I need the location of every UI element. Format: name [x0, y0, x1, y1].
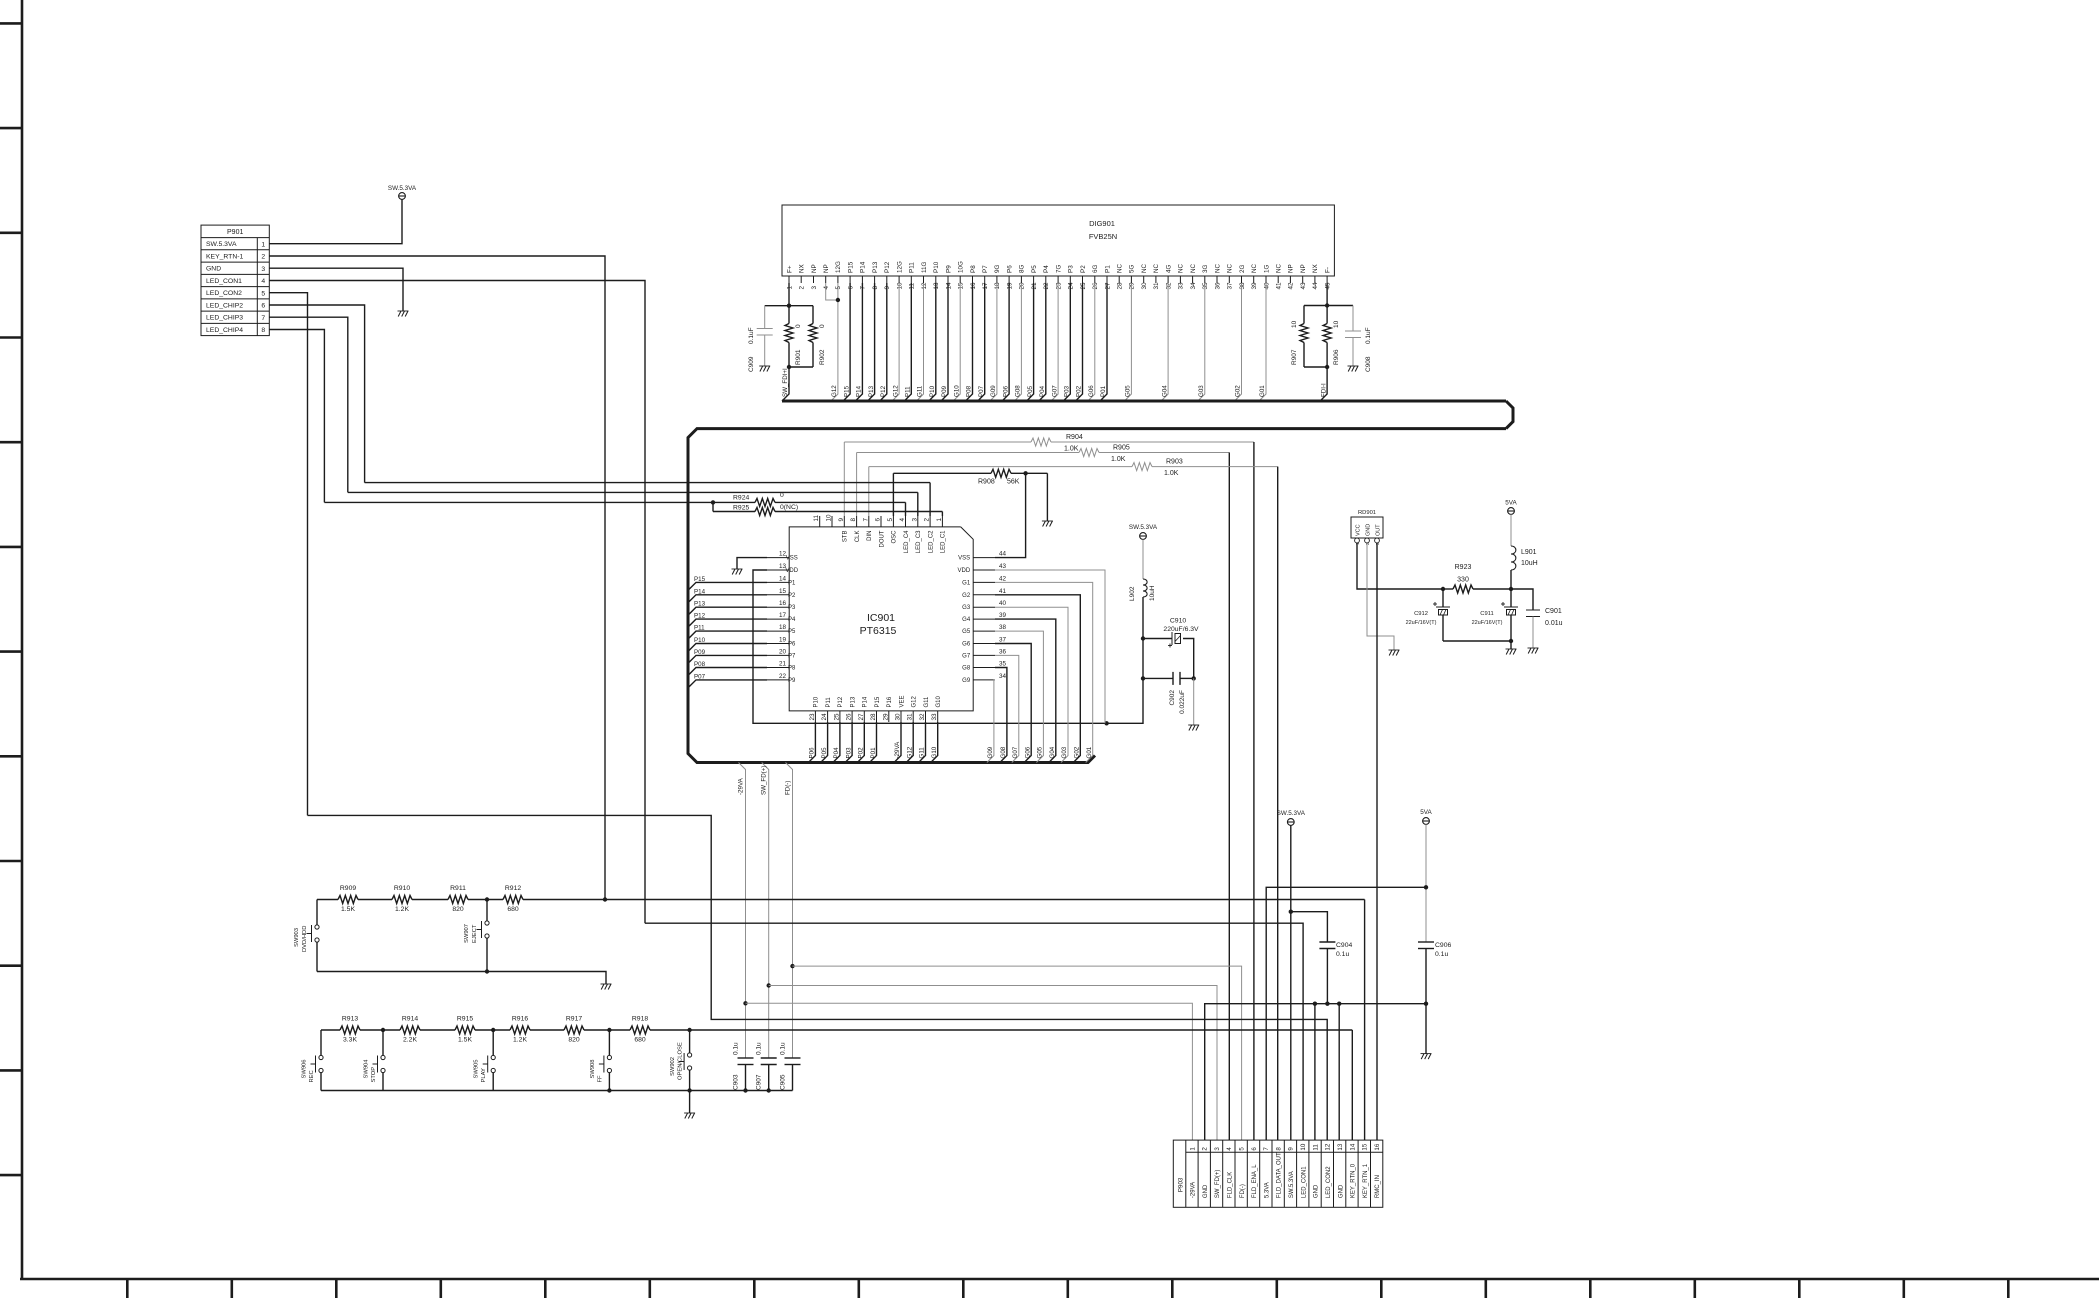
svg-text:12G: 12G [896, 261, 903, 273]
capacitor C907 0.1u [756, 1042, 777, 1091]
svg-text:4: 4 [261, 278, 265, 285]
svg-text:4: 4 [1226, 1147, 1233, 1151]
svg-text:GND: GND [1314, 1184, 1320, 1198]
svg-text:13: 13 [933, 282, 940, 290]
wire SW907 top [486, 900, 488, 921]
wire LED_CON1 from P901 pin4 [269, 281, 645, 924]
svg-text:39: 39 [1251, 282, 1258, 290]
wire DIG901 pin11 net P11 to bus [904, 283, 911, 401]
svg-text:SW908: SW908 [590, 1059, 596, 1078]
svg-text:P4: P4 [1043, 265, 1050, 273]
svg-text:29: 29 [882, 713, 889, 721]
svg-text:G01: G01 [1086, 746, 1093, 758]
svg-text:P11: P11 [694, 625, 705, 632]
svg-text:EJECT: EJECT [472, 924, 478, 943]
svg-text:NC: NC [1141, 263, 1148, 273]
svg-text:SW_FDI+I: SW_FDI+I [782, 368, 789, 397]
node FDI-I (bus entry label) [1320, 383, 1327, 397]
node P07 (bus entry label) [978, 385, 985, 397]
svg-text:P08: P08 [966, 385, 973, 397]
svg-text:G12: G12 [906, 746, 913, 758]
wire SW903 top [316, 900, 318, 925]
wire LED_C1 drop [941, 512, 943, 517]
node G03 (bus entry label) [1061, 746, 1068, 758]
wire IC901 P9 to bus (P07) [689, 680, 767, 687]
svg-text:27: 27 [1104, 282, 1111, 290]
wire IC901 G1 to bus (G01) [995, 582, 1093, 762]
wire IC901 bottom pin30 to bus (-29VA) [894, 722, 901, 763]
svg-text:28: 28 [1117, 282, 1124, 290]
junction row2 [607, 1028, 611, 1032]
svg-text:G07: G07 [1051, 385, 1058, 397]
svg-text:FLD_ENA_L: FLD_ENA_L [1252, 1164, 1258, 1198]
svg-text:14: 14 [945, 282, 952, 290]
svg-text:SW.5.3VA: SW.5.3VA [1277, 810, 1306, 817]
svg-text:2G: 2G [1239, 264, 1246, 273]
svg-text:8: 8 [872, 286, 879, 290]
resistor R910 1.2K [394, 885, 410, 913]
svg-text:820: 820 [452, 906, 464, 913]
svg-text:25: 25 [1080, 282, 1087, 290]
svg-text:R911: R911 [450, 885, 466, 892]
junction GND C904 [1325, 1002, 1329, 1006]
wire VDD pin43 down [995, 570, 1105, 723]
svg-text:P13: P13 [850, 696, 856, 707]
capacitor C912 22uF/16V(T) [1406, 589, 1450, 641]
svg-text:NC: NC [1153, 263, 1160, 273]
svg-text:220uF/6.3V: 220uF/6.3V [1163, 626, 1199, 633]
svg-text:CLK: CLK [855, 531, 861, 543]
ground (IC901 VSS left) [732, 569, 743, 575]
svg-text:8: 8 [1275, 1147, 1282, 1151]
wire F+ top rail [765, 305, 813, 307]
svg-text:GND: GND [1365, 524, 1371, 536]
wire FLD_ENA_L to P903 [1253, 442, 1255, 1140]
wire DIG901 pin9 net P12 to bus [880, 283, 887, 401]
ground (R908) [1042, 521, 1053, 527]
resistor R914 2.2K [402, 1016, 418, 1044]
svg-text:OSC: OSC [892, 530, 898, 544]
junction C902 left [1141, 676, 1145, 680]
svg-text:G10: G10 [936, 695, 942, 707]
wire DIG901 pin14 net P09 to bus [941, 283, 948, 401]
wire F- top rail [1304, 305, 1353, 307]
resistor R918 680 [632, 1016, 648, 1044]
svg-text:G06: G06 [1024, 746, 1031, 758]
svg-text:P08: P08 [694, 661, 706, 668]
svg-text:LED_C4: LED_C4 [904, 530, 910, 553]
node G10 (IC bottom bus label) [931, 746, 938, 758]
wire R908 to ground [1046, 473, 1048, 521]
wire DIG901 pin22 net P04 to bus [1039, 283, 1046, 401]
svg-text:680: 680 [634, 1037, 646, 1044]
svg-text:G09: G09 [990, 385, 997, 397]
wire LED_CON2 from P901 pin5 [269, 293, 307, 816]
svg-text:P15: P15 [843, 385, 850, 397]
svg-text:G06: G06 [1088, 385, 1095, 397]
svg-text:P3: P3 [1068, 265, 1075, 273]
ground (below SW.5.3VA wire) [398, 311, 409, 317]
wire LED_CHIP3 from P901 pin7 [269, 317, 348, 492]
svg-text:34: 34 [999, 673, 1007, 680]
svg-text:VSS: VSS [786, 556, 798, 562]
svg-text:6G: 6G [1092, 264, 1099, 273]
node G12 (bus entry label) [892, 385, 899, 397]
switch SW902 OPEN/CLOSE [670, 1042, 692, 1080]
wire IC901 P2 to bus (P14) [689, 595, 767, 602]
svg-text:2: 2 [924, 518, 931, 522]
svg-text:3: 3 [811, 286, 818, 290]
wire SW902 top [689, 1030, 691, 1053]
svg-text:R914: R914 [402, 1016, 418, 1023]
wire DIG901 pin18 net G09 to bus [990, 283, 997, 401]
node P08 (IC left bus label) [694, 661, 706, 668]
bus (around IC901) [688, 429, 1506, 763]
svg-text:-29VA: -29VA [1191, 1182, 1197, 1198]
svg-text:RD901: RD901 [1358, 510, 1376, 516]
IC901 bottom pins 23-33 (P10-P16 VEE G12 G11 G10) [809, 695, 942, 722]
wire SW903 bottom [316, 942, 318, 971]
svg-text:38: 38 [999, 624, 1007, 631]
node G01 (bus entry label) [1086, 746, 1093, 758]
svg-text:23: 23 [1055, 282, 1062, 290]
svg-text:R906: R906 [1333, 349, 1340, 365]
wire CLK vertical [856, 453, 858, 517]
wire FD(-) to P903 pin5 [793, 966, 1242, 1140]
svg-text:0.1u: 0.1u [733, 1042, 740, 1055]
svg-text:680: 680 [507, 906, 519, 913]
svg-text:F+: F+ [786, 265, 793, 273]
junction row2 [491, 1028, 495, 1032]
svg-text:56K: 56K [1007, 479, 1020, 486]
wire DIG901 pin12 net G11 to bus [917, 283, 924, 401]
svg-text:10: 10 [1291, 320, 1298, 328]
svg-text:G8: G8 [962, 666, 971, 672]
svg-text:1.5K: 1.5K [458, 1037, 472, 1044]
svg-text:30: 30 [1141, 282, 1148, 290]
wire IC901 G2 to bus (G02) [995, 595, 1080, 763]
node G06 (bus entry label) [1088, 385, 1095, 397]
svg-text:1.0K: 1.0K [1111, 456, 1126, 463]
svg-text:37: 37 [999, 637, 1007, 644]
node G04 (bus entry label) [1049, 746, 1056, 758]
svg-text:P1: P1 [788, 580, 796, 586]
node G05 (bus entry label) [1037, 746, 1044, 758]
svg-text:P10: P10 [929, 385, 936, 397]
svg-text:P11: P11 [826, 697, 832, 708]
connector DIG901 FVB25N body [782, 205, 1334, 276]
svg-text:2: 2 [1202, 1147, 1209, 1151]
svg-text:8: 8 [261, 327, 265, 334]
wire DIG901 pin27 net P01 to bus [1100, 283, 1107, 401]
svg-text:C910: C910 [1170, 618, 1186, 625]
svg-text:31: 31 [907, 713, 914, 721]
connector P901 [201, 225, 269, 336]
svg-text:NX: NX [799, 263, 806, 273]
svg-text:G05: G05 [1125, 385, 1132, 397]
svg-text:G11: G11 [919, 747, 926, 759]
svg-text:P2: P2 [788, 593, 796, 599]
svg-text:C911: C911 [1480, 611, 1493, 617]
svg-text:G5: G5 [962, 629, 971, 635]
svg-text:26: 26 [846, 713, 853, 721]
wire IC901 G5 to bus (G05) [995, 631, 1043, 762]
svg-text:P12: P12 [880, 385, 887, 397]
resistor R912 680 [505, 885, 521, 913]
wire DIG901 pin8 net P13 to bus [868, 283, 875, 401]
svg-text:P15: P15 [875, 696, 881, 707]
svg-text:P9: P9 [788, 678, 796, 684]
junction FD(-)/C905 [790, 964, 794, 968]
svg-text:12: 12 [1325, 1143, 1332, 1150]
svg-text:22: 22 [779, 673, 787, 680]
svg-text:R915: R915 [457, 1016, 473, 1023]
svg-text:P05: P05 [1027, 385, 1034, 397]
svg-text:28: 28 [870, 713, 877, 721]
svg-text:SW_FD(+): SW_FD(+) [761, 766, 768, 795]
node P04 (bus entry label) [1039, 385, 1046, 397]
wire FDI-I to bus [1320, 367, 1327, 401]
svg-text:17: 17 [982, 282, 989, 290]
svg-text:P13: P13 [872, 261, 879, 273]
svg-text:C907: C907 [756, 1074, 763, 1090]
svg-text:22: 22 [1043, 282, 1050, 290]
svg-text:IC901: IC901 [867, 612, 895, 624]
junction C903 bottom [743, 1088, 747, 1092]
svg-text:G12: G12 [892, 385, 899, 397]
wire VDD pin13 route [753, 570, 1107, 723]
node G08 (bus entry label) [1000, 746, 1007, 758]
svg-text:8G: 8G [1019, 264, 1026, 273]
capacitor C901 0.01u [1511, 589, 1563, 648]
svg-text:3.3K: 3.3K [343, 1037, 357, 1044]
svg-text:R905: R905 [1113, 445, 1130, 452]
junction row2 [381, 1028, 385, 1032]
svg-text:VSS: VSS [958, 556, 970, 562]
wire DIG901 pin45 F- down [1326, 283, 1328, 306]
wire GND rail [1205, 1004, 1426, 1140]
svg-text:G11: G11 [924, 696, 930, 708]
svg-text:G03: G03 [1061, 746, 1068, 758]
svg-text:FD(-): FD(-) [785, 781, 792, 795]
svg-text:10uH: 10uH [1149, 585, 1156, 601]
svg-text:1: 1 [1189, 1147, 1196, 1151]
svg-text:3: 3 [261, 266, 265, 273]
junction R924/R925 [711, 500, 715, 504]
svg-text:7: 7 [862, 518, 869, 522]
wire IC901 bottom pin32 to bus (G11) [919, 722, 926, 763]
svg-text:G12: G12 [831, 385, 838, 397]
svg-text:P8: P8 [970, 265, 977, 273]
node P01 (bus entry label) [1100, 385, 1107, 397]
svg-text:9: 9 [884, 286, 891, 290]
svg-text:P10: P10 [694, 637, 706, 644]
svg-text:15: 15 [779, 588, 787, 595]
node P11 (bus entry label) [905, 386, 912, 397]
wire IC901 G8 to bus (G08) [995, 668, 1007, 763]
junction row2 rail SW902 [687, 1088, 691, 1092]
svg-text:1G: 1G [1263, 264, 1270, 273]
svg-text:R907: R907 [1291, 349, 1298, 365]
node P03 (IC bottom bus label) [845, 747, 852, 759]
svg-text:R917: R917 [566, 1016, 582, 1023]
inductor L902 10uH [1129, 540, 1156, 639]
svg-text:33: 33 [1178, 282, 1185, 290]
svg-text:10uH: 10uH [1521, 560, 1538, 567]
node P09 (IC left bus label) [694, 649, 706, 656]
ground (C901) [1528, 648, 1539, 654]
svg-text:35: 35 [1202, 282, 1209, 290]
svg-text:R918: R918 [632, 1016, 648, 1023]
svg-text:6: 6 [261, 303, 265, 310]
svg-text:0: 0 [819, 324, 826, 328]
svg-text:LED_CON1: LED_CON1 [1301, 1166, 1307, 1198]
wire KEY_RTN_1 to P903 pin15 [1364, 900, 1366, 1141]
svg-text:C908: C908 [1365, 356, 1372, 372]
svg-text:LED_C2: LED_C2 [928, 530, 934, 553]
wire 5.3VA to P903 pin7 [1266, 887, 1426, 1140]
junction L902/C910 [1141, 636, 1145, 640]
power flag 5VA (C906) [1420, 809, 1432, 824]
svg-text:NX: NX [1312, 263, 1319, 273]
svg-text:G7: G7 [962, 653, 971, 659]
svg-text:DIG901: DIG901 [1089, 219, 1115, 228]
wire RD901 GND [1367, 543, 1394, 650]
wire DIG901 pin23 net G07 to bus [1051, 283, 1058, 401]
wire R906/R907 bottom rail [1304, 366, 1327, 368]
resistor R901 0 [785, 306, 802, 367]
svg-text:R909: R909 [340, 885, 356, 892]
svg-text:9: 9 [838, 518, 845, 522]
node P13 (bus entry label) [868, 385, 875, 397]
svg-text:P13: P13 [868, 385, 875, 397]
node G05 (bus entry label) [1125, 385, 1132, 397]
svg-text:KEY_RTN_1: KEY_RTN_1 [1363, 1163, 1369, 1198]
wire IC901 P1 to bus (P15) [689, 582, 767, 589]
wire SW908 top [608, 1030, 610, 1055]
svg-text:G2: G2 [962, 593, 971, 599]
svg-text:2: 2 [261, 254, 265, 261]
svg-text:SW902: SW902 [670, 1057, 676, 1076]
svg-text:5: 5 [887, 518, 894, 522]
svg-text:R923: R923 [1455, 564, 1472, 571]
power flag 5VA (L901) [1505, 500, 1517, 515]
svg-text:NC: NC [1117, 263, 1124, 273]
capacitor C911 22uF/16V(T) [1472, 589, 1518, 641]
svg-text:3: 3 [1214, 1147, 1221, 1151]
svg-text:10G: 10G [958, 261, 965, 273]
wire DIG901 pin29 net G05 to bus [1124, 283, 1131, 401]
wire SW905 bottom [492, 1073, 494, 1091]
svg-text:24: 24 [821, 713, 828, 721]
svg-text:40: 40 [999, 600, 1007, 607]
wire IC901 P7 to bus (P09) [689, 655, 767, 662]
wire IC901 bottom pin26 to bus (P03) [845, 722, 852, 763]
wire R901/R902 bottom rail [789, 366, 813, 368]
svg-text:G02: G02 [1074, 746, 1081, 758]
junction row1/SW907 [485, 897, 489, 901]
wire IC901 P5 to bus (P11) [689, 631, 767, 638]
node P06 (bus entry label) [1002, 385, 1009, 397]
svg-text:C903: C903 [733, 1074, 740, 1090]
node P09 (bus entry label) [941, 385, 948, 397]
wire SW904 bottom [382, 1073, 384, 1091]
junction C902 right [1192, 676, 1196, 680]
svg-text:R908: R908 [978, 479, 995, 486]
junction row2 [687, 1028, 691, 1032]
node P06 (IC bottom bus label) [809, 747, 816, 759]
power flag SW.5.3VA (P903) [1277, 810, 1306, 825]
junction GND pin11 [1313, 1002, 1317, 1006]
node G04 (bus entry label) [1161, 385, 1168, 397]
junction SW_FD(+)/C907 [767, 983, 771, 987]
svg-text:0(NC): 0(NC) [780, 504, 798, 511]
power flag SW.5.3VA (top left) [388, 185, 417, 199]
junction row1/KEY_RTN-1 [603, 897, 607, 901]
svg-text:0.01u: 0.01u [1545, 620, 1563, 627]
wire LED_C4 drop [905, 502, 907, 516]
wire DIG901 pin6 net P15 to bus [843, 283, 850, 401]
svg-text:OUT: OUT [1375, 524, 1381, 536]
svg-text:DVD/HDD: DVD/HDD [302, 926, 308, 952]
svg-text:P12: P12 [884, 261, 891, 273]
svg-text:39: 39 [999, 612, 1007, 619]
switch SW905 PLAY [474, 1055, 496, 1082]
svg-text:-29VA: -29VA [738, 777, 745, 795]
svg-text:0.1u: 0.1u [1336, 951, 1349, 958]
wire DIG901 pin16 net P08 to bus [966, 283, 973, 401]
svg-text:43: 43 [999, 563, 1007, 570]
svg-text:9G: 9G [994, 264, 1001, 273]
wire DIG901 pin17 net P07 to bus [978, 283, 985, 401]
svg-text:L901: L901 [1521, 549, 1537, 556]
wire OSC vertical [892, 473, 894, 516]
svg-text:VCC: VCC [1355, 524, 1361, 536]
node P02 (bus entry label) [1076, 385, 1083, 397]
node P14 (bus entry label) [856, 385, 863, 397]
svg-text:P12: P12 [838, 696, 844, 707]
svg-text:21: 21 [779, 661, 787, 668]
wire C912/C911 rail [1443, 640, 1511, 642]
svg-text:P09: P09 [694, 649, 706, 656]
wire 5VA down [1425, 824, 1427, 942]
svg-text:SW905: SW905 [474, 1059, 480, 1078]
svg-text:G3: G3 [962, 605, 971, 611]
connector RD901 [1351, 510, 1383, 545]
svg-text:11: 11 [909, 282, 916, 289]
ground (C908) [1348, 366, 1359, 372]
resistor R904 1.0K [844, 434, 1254, 453]
svg-text:G05: G05 [1037, 746, 1044, 758]
svg-text:GND: GND [1203, 1184, 1209, 1198]
svg-text:DIN: DIN [867, 531, 873, 541]
wire SW906 bottom [320, 1073, 322, 1091]
ground (C906) [1421, 1054, 1432, 1060]
svg-text:8: 8 [850, 518, 857, 522]
svg-text:42: 42 [999, 575, 1007, 582]
junction SW_FDI+I [787, 365, 791, 369]
resistor R925 0(NC) [713, 502, 942, 515]
resistor R923 330 [1443, 564, 1511, 593]
svg-text:R916: R916 [512, 1016, 528, 1023]
capacitor C905 0.1u [780, 1042, 801, 1091]
wire DIG901 pin25 net P02 to bus [1076, 283, 1083, 401]
svg-text:44: 44 [999, 551, 1007, 558]
svg-text:4: 4 [823, 286, 830, 290]
svg-text:5G: 5G [1129, 264, 1136, 273]
wire STB vertical [843, 442, 845, 516]
svg-text:330: 330 [1457, 577, 1469, 584]
